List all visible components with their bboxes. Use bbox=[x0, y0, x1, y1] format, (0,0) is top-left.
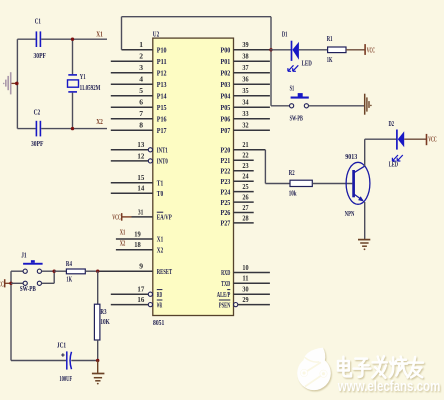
svg-text:R3: R3 bbox=[100, 307, 106, 316]
svg-text:12: 12 bbox=[137, 151, 144, 160]
svg-text:1K: 1K bbox=[327, 55, 333, 64]
svg-text:P27: P27 bbox=[221, 219, 231, 228]
svg-text:30PF: 30PF bbox=[31, 139, 44, 148]
svg-text:25: 25 bbox=[242, 182, 248, 191]
svg-text:36: 36 bbox=[242, 75, 248, 84]
svg-text:P06: P06 bbox=[221, 115, 231, 124]
svg-text:D2: D2 bbox=[389, 119, 395, 128]
svg-text:3: 3 bbox=[139, 63, 143, 72]
svg-text:24: 24 bbox=[242, 172, 248, 181]
svg-text:TXD: TXD bbox=[221, 279, 230, 288]
svg-text:INT1: INT1 bbox=[157, 146, 168, 155]
svg-text:17: 17 bbox=[137, 285, 144, 294]
svg-text:P01: P01 bbox=[221, 57, 231, 66]
svg-text:P24: P24 bbox=[221, 187, 231, 196]
svg-text:18: 18 bbox=[134, 240, 141, 249]
svg-text:D1: D1 bbox=[282, 30, 288, 39]
svg-text:13: 13 bbox=[137, 140, 144, 149]
svg-text:9013: 9013 bbox=[345, 152, 357, 161]
svg-text:26: 26 bbox=[242, 193, 248, 202]
svg-text:10K: 10K bbox=[100, 317, 109, 326]
svg-text:P26: P26 bbox=[221, 208, 231, 217]
svg-text:P13: P13 bbox=[157, 80, 167, 89]
svg-text:R1: R1 bbox=[327, 34, 333, 43]
svg-text:P20: P20 bbox=[221, 146, 231, 155]
svg-text:T1: T1 bbox=[157, 178, 164, 187]
svg-text:5: 5 bbox=[139, 86, 143, 95]
svg-text:X1: X1 bbox=[157, 235, 164, 244]
svg-text:P02: P02 bbox=[221, 69, 231, 78]
svg-text:JC1: JC1 bbox=[57, 340, 66, 349]
svg-text:RXD: RXD bbox=[221, 268, 230, 277]
svg-text:35: 35 bbox=[242, 86, 248, 95]
svg-text:P05: P05 bbox=[221, 103, 231, 112]
svg-text:22: 22 bbox=[242, 151, 248, 160]
svg-text:R2: R2 bbox=[289, 168, 295, 177]
svg-text:INT0: INT0 bbox=[157, 157, 168, 166]
svg-text:11.0592M: 11.0592M bbox=[80, 84, 101, 92]
svg-text:P04: P04 bbox=[221, 92, 231, 101]
svg-text:SW-PB: SW-PB bbox=[290, 113, 303, 122]
svg-text:11: 11 bbox=[242, 274, 248, 283]
svg-text:1K: 1K bbox=[66, 275, 72, 284]
svg-text:S1: S1 bbox=[290, 83, 295, 92]
svg-text:100UF: 100UF bbox=[59, 374, 72, 383]
svg-text:P12: P12 bbox=[157, 69, 167, 78]
svg-text:P23: P23 bbox=[221, 177, 231, 186]
svg-text:RESET: RESET bbox=[157, 267, 172, 276]
svg-text:29: 29 bbox=[242, 295, 248, 304]
svg-text:J1: J1 bbox=[21, 251, 27, 260]
svg-text:30PF: 30PF bbox=[34, 51, 47, 60]
svg-text:P00: P00 bbox=[221, 46, 231, 55]
svg-text:P25: P25 bbox=[221, 198, 231, 207]
svg-text:VCC: VCC bbox=[428, 135, 437, 144]
svg-text:P16: P16 bbox=[157, 115, 167, 124]
svg-text:WR: WR bbox=[157, 300, 163, 309]
svg-text:14: 14 bbox=[137, 184, 144, 193]
svg-text:X2: X2 bbox=[157, 245, 164, 254]
svg-text:P15: P15 bbox=[157, 103, 167, 112]
svg-text:U2: U2 bbox=[153, 29, 160, 38]
svg-text:X1: X1 bbox=[96, 29, 103, 38]
svg-text:LED: LED bbox=[302, 59, 313, 68]
svg-text:7: 7 bbox=[139, 109, 143, 118]
svg-text:X2: X2 bbox=[120, 239, 126, 248]
svg-text:T0: T0 bbox=[157, 189, 164, 198]
svg-text:NPN: NPN bbox=[345, 209, 355, 218]
svg-text:19: 19 bbox=[134, 229, 141, 238]
svg-text:34: 34 bbox=[242, 98, 248, 107]
svg-text:30: 30 bbox=[242, 285, 248, 294]
svg-text:EA/VP: EA/VP bbox=[157, 213, 172, 222]
svg-text:39: 39 bbox=[242, 40, 248, 49]
svg-text:32: 32 bbox=[242, 121, 248, 130]
svg-text:1: 1 bbox=[139, 40, 143, 49]
svg-text:16: 16 bbox=[137, 295, 144, 304]
svg-text:21: 21 bbox=[242, 140, 248, 149]
svg-text:8: 8 bbox=[139, 121, 143, 130]
svg-text:P14: P14 bbox=[157, 92, 167, 101]
svg-text:37: 37 bbox=[242, 63, 248, 72]
svg-text:23: 23 bbox=[242, 161, 248, 170]
svg-text:P22: P22 bbox=[221, 166, 231, 175]
svg-text:X2: X2 bbox=[96, 117, 103, 126]
svg-text:C1: C1 bbox=[35, 17, 41, 26]
svg-text:VCC: VCC bbox=[0, 280, 4, 289]
svg-text:P10: P10 bbox=[157, 46, 167, 55]
svg-text:P17: P17 bbox=[157, 126, 167, 135]
svg-text:P21: P21 bbox=[221, 156, 231, 165]
svg-text:Y1: Y1 bbox=[80, 72, 86, 81]
svg-text:27: 27 bbox=[242, 203, 248, 212]
svg-text:4: 4 bbox=[139, 75, 143, 84]
svg-text:38: 38 bbox=[242, 52, 248, 61]
svg-text:PSEN: PSEN bbox=[219, 300, 231, 309]
svg-text:15: 15 bbox=[137, 173, 144, 182]
svg-text:9: 9 bbox=[139, 262, 143, 271]
svg-text:P07: P07 bbox=[221, 126, 231, 135]
svg-text:8051: 8051 bbox=[153, 318, 164, 327]
svg-text:10: 10 bbox=[242, 263, 248, 272]
svg-text:33: 33 bbox=[242, 109, 248, 118]
svg-text:2: 2 bbox=[139, 52, 143, 61]
svg-text:28: 28 bbox=[242, 213, 248, 222]
svg-text:10k: 10k bbox=[289, 189, 297, 198]
svg-text:X1: X1 bbox=[120, 228, 126, 237]
svg-text:P11: P11 bbox=[157, 57, 167, 66]
svg-text:ALE/P: ALE/P bbox=[217, 290, 231, 299]
svg-text:SW-PB: SW-PB bbox=[20, 284, 36, 293]
svg-text:6: 6 bbox=[139, 98, 143, 107]
svg-text:www.elecfans.com: www.elecfans.com bbox=[337, 379, 440, 395]
svg-text:VCC: VCC bbox=[367, 45, 375, 54]
svg-text:P03: P03 bbox=[221, 80, 231, 89]
svg-text:RD: RD bbox=[157, 290, 163, 299]
svg-text:VCC: VCC bbox=[112, 212, 121, 221]
svg-text:C2: C2 bbox=[34, 108, 41, 117]
svg-text:31: 31 bbox=[138, 207, 144, 216]
svg-text:R4: R4 bbox=[66, 259, 72, 268]
